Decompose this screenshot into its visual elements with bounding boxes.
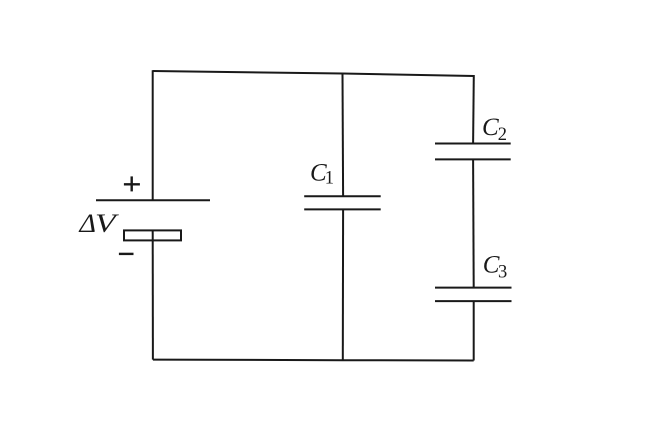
svg-text:2: 2 — [498, 125, 507, 145]
svg-text:C: C — [482, 114, 499, 141]
svg-text:Δ: Δ — [78, 209, 96, 238]
svg-text:3: 3 — [498, 263, 507, 283]
svg-text:1: 1 — [325, 169, 334, 189]
